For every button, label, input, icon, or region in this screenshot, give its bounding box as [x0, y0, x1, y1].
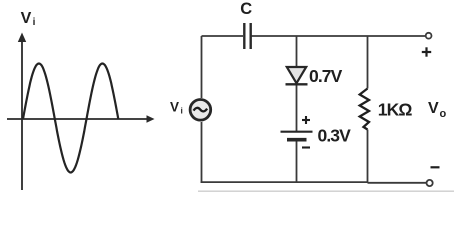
svg-text:0.3V: 0.3V [318, 125, 352, 145]
svg-text:V: V [170, 100, 179, 115]
svg-text:0.7V: 0.7V [309, 66, 343, 86]
svg-text:i: i [181, 106, 183, 116]
svg-text:V: V [428, 100, 439, 117]
svg-text:C: C [240, 0, 252, 18]
svg-text:V: V [21, 10, 32, 27]
svg-text:i: i [33, 17, 36, 28]
svg-text:1KΩ: 1KΩ [378, 100, 413, 120]
svg-text:o: o [440, 108, 447, 120]
